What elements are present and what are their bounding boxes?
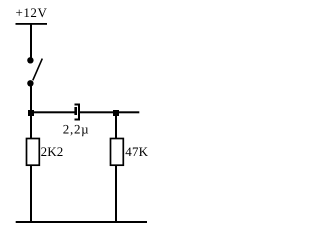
svg-text:47K: 47K — [125, 144, 148, 159]
svg-text:+12V: +12V — [16, 5, 48, 20]
svg-text:2,2µ: 2,2µ — [63, 122, 90, 137]
svg-text:2K2: 2K2 — [41, 144, 64, 159]
